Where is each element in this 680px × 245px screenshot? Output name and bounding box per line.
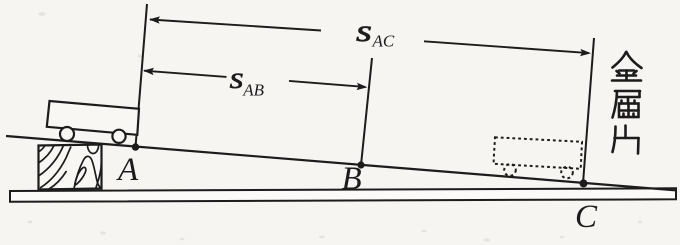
svg-text:C: C	[575, 199, 598, 235]
svg-text:AB: AB	[242, 80, 264, 99]
svg-text:AC: AC	[372, 32, 395, 51]
svg-text:B: B	[342, 161, 362, 197]
svg-text:A: A	[116, 152, 139, 188]
svg-text:s: s	[229, 61, 243, 95]
svg-text:s: s	[356, 14, 372, 48]
